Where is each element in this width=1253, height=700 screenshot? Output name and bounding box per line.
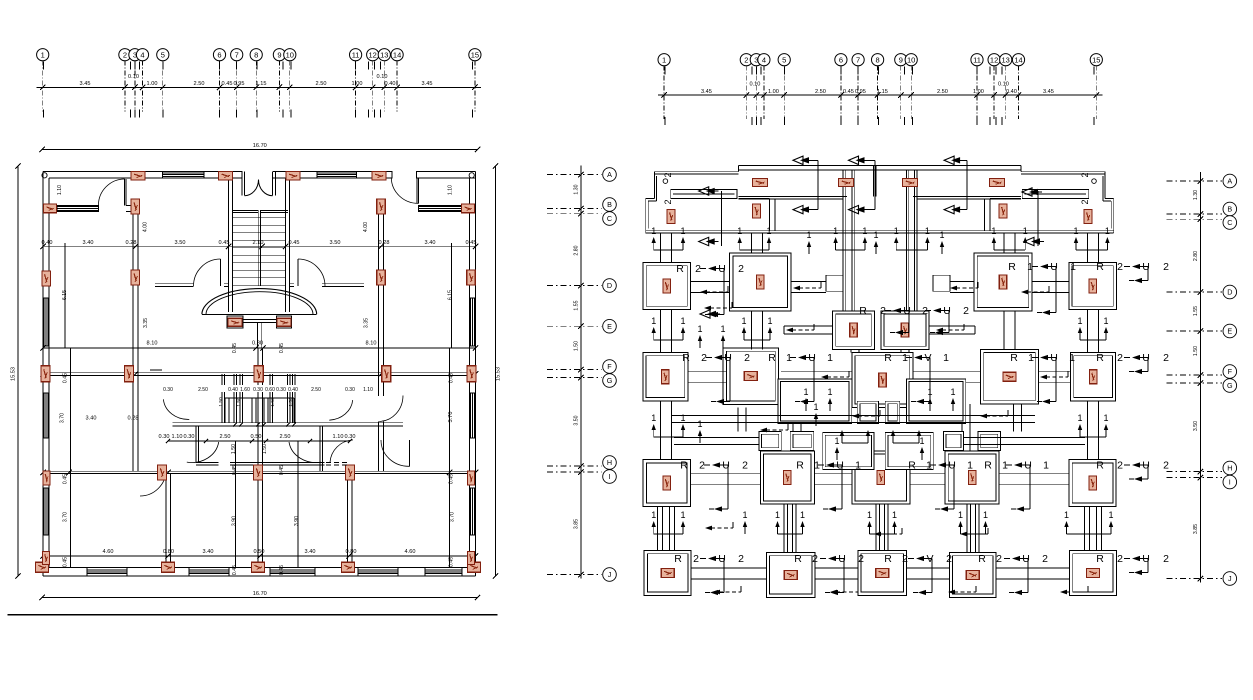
svg-text:1: 1 bbox=[680, 226, 685, 236]
hook arrow 17 bbox=[980, 410, 1008, 418]
svg-text:0.30: 0.30 bbox=[276, 387, 286, 393]
hall wall right bbox=[290, 284, 365, 287]
right-plan grid bubbles 1-15 bbox=[658, 54, 1102, 66]
band window left bbox=[671, 190, 737, 199]
column marker bottom wall x348 bbox=[342, 562, 355, 572]
svg-text:8: 8 bbox=[254, 50, 258, 59]
svg-text:0.60: 0.60 bbox=[265, 387, 275, 393]
dim labels y391 bbox=[161, 385, 373, 393]
rebar arrow pair 18 bbox=[891, 430, 921, 443]
svg-text:4.00: 4.00 bbox=[143, 222, 149, 232]
svg-text:6: 6 bbox=[217, 50, 221, 59]
band marker v3 bbox=[999, 204, 1007, 218]
svg-text:1.10: 1.10 bbox=[448, 185, 454, 195]
svg-text:7: 7 bbox=[235, 50, 239, 59]
svg-text:14: 14 bbox=[393, 50, 401, 59]
svg-text:F: F bbox=[1228, 367, 1233, 376]
svg-text:1.15: 1.15 bbox=[256, 81, 267, 87]
svg-text:0.40: 0.40 bbox=[385, 81, 396, 87]
left plan left wall window 3 bbox=[43, 488, 49, 535]
B-row wall right bbox=[419, 206, 467, 212]
svg-text:13: 13 bbox=[1002, 55, 1010, 64]
hook arrow 9 bbox=[713, 586, 741, 594]
footing pad P14 bbox=[852, 451, 910, 504]
band marker v2 bbox=[753, 204, 761, 218]
svg-text:12: 12 bbox=[369, 50, 377, 59]
foundation band bottom edge bbox=[646, 231, 1114, 233]
svg-text:10: 10 bbox=[286, 50, 294, 59]
svg-text:0.30: 0.30 bbox=[184, 434, 195, 440]
band stairwell wall right bbox=[906, 170, 916, 311]
column marker y372 x386 bbox=[382, 366, 391, 382]
svg-text:U: U bbox=[1050, 352, 1058, 364]
interior wall bottom-right vertical bbox=[348, 473, 353, 567]
rebar arrow single 11 bbox=[813, 402, 818, 426]
rotated dim text 6.15 at 66,295 bbox=[62, 290, 68, 300]
svg-text:4: 4 bbox=[140, 50, 144, 59]
svg-text:1.00: 1.00 bbox=[768, 89, 779, 95]
right overall vertical dim 15.53 bbox=[493, 163, 502, 578]
svg-text:A: A bbox=[607, 170, 612, 179]
footing pad P12 bbox=[643, 460, 690, 507]
svg-text:5: 5 bbox=[782, 55, 786, 64]
svg-text:0.10: 0.10 bbox=[998, 82, 1009, 88]
svg-text:1: 1 bbox=[806, 230, 811, 240]
svg-text:0.45: 0.45 bbox=[289, 240, 300, 246]
footing pad P19 bbox=[858, 551, 907, 596]
svg-text:1.30: 1.30 bbox=[1193, 190, 1199, 200]
label R-U group 16 bbox=[794, 553, 864, 595]
beam P10-P11 bbox=[1038, 371, 1070, 382]
svg-text:2: 2 bbox=[922, 305, 928, 317]
svg-text:6: 6 bbox=[839, 55, 843, 64]
svg-text:U: U bbox=[836, 460, 844, 472]
rebar arrow pair 17 bbox=[840, 430, 870, 443]
svg-text:U: U bbox=[903, 305, 911, 317]
svg-text:2: 2 bbox=[812, 553, 818, 565]
stub row D left bbox=[826, 275, 843, 291]
beam P12-P17 bbox=[658, 506, 675, 550]
svg-text:3.50: 3.50 bbox=[330, 240, 341, 246]
interior wall bottom-left vertical bbox=[166, 473, 171, 567]
band marker v4 bbox=[1084, 210, 1092, 224]
witness line mid-right lower bbox=[297, 441, 299, 567]
section line right bbox=[1037, 191, 1039, 246]
foundation strip band outline bbox=[646, 166, 1114, 233]
left plan corner circle top-right bbox=[469, 173, 474, 178]
label R-U group 12 bbox=[908, 460, 973, 512]
svg-text:1.50: 1.50 bbox=[1193, 346, 1199, 356]
svg-text:2: 2 bbox=[123, 50, 127, 59]
svg-text:1.10: 1.10 bbox=[333, 434, 344, 440]
svg-text:15: 15 bbox=[471, 50, 479, 59]
beam P7-P8 bbox=[688, 371, 727, 382]
svg-text:U: U bbox=[1142, 553, 1150, 565]
hall partition lower mid bbox=[230, 462, 324, 465]
column marker V2 mid bbox=[377, 270, 386, 285]
rebar arrow single 5 bbox=[720, 324, 725, 348]
foundation band inner right corner bbox=[1103, 176, 1111, 228]
svg-text:R: R bbox=[884, 553, 892, 565]
overall dim 16.70 bottom bbox=[39, 591, 480, 600]
svg-text:2: 2 bbox=[742, 460, 748, 472]
middle zone box 8 bbox=[885, 433, 933, 470]
svg-text:1: 1 bbox=[651, 316, 656, 326]
rebar arrow single 9 bbox=[950, 387, 955, 411]
dim line y441 bbox=[166, 439, 352, 443]
column marker y372 x258 bbox=[254, 366, 263, 382]
svg-text:J: J bbox=[608, 570, 612, 579]
door top-left arc bbox=[98, 179, 124, 205]
svg-text:1: 1 bbox=[680, 510, 685, 520]
column marker bottom wall x258 bbox=[252, 562, 265, 572]
band stairwell wall left bbox=[843, 170, 854, 311]
svg-text:R: R bbox=[674, 553, 682, 565]
left plan right wall window 2 bbox=[470, 393, 476, 438]
left plan bottom exterior wall bbox=[43, 568, 476, 577]
footing pad P20 bbox=[949, 553, 996, 598]
beam P5-P9 bbox=[851, 349, 859, 352]
svg-text:14: 14 bbox=[1014, 55, 1022, 64]
svg-text:1: 1 bbox=[1043, 460, 1049, 472]
beam midzone left bbox=[738, 407, 746, 431]
column marker left wall low bbox=[43, 552, 50, 565]
svg-text:7: 7 bbox=[856, 55, 860, 64]
svg-text:3.35: 3.35 bbox=[143, 318, 149, 328]
svg-text:0.28: 0.28 bbox=[126, 240, 137, 246]
middle zone box 1 bbox=[778, 379, 852, 424]
svg-text:1.00: 1.00 bbox=[973, 89, 984, 95]
hook arrow 2 bbox=[704, 302, 732, 310]
svg-text:15.53: 15.53 bbox=[496, 367, 502, 381]
hook arrow 7 bbox=[821, 371, 849, 379]
svg-text:2: 2 bbox=[1117, 553, 1123, 565]
svg-text:1: 1 bbox=[873, 230, 878, 240]
svg-text:4.60: 4.60 bbox=[405, 549, 416, 555]
svg-text:2: 2 bbox=[695, 263, 701, 275]
svg-text:U: U bbox=[808, 352, 816, 364]
rebar arrow single 2 bbox=[873, 230, 878, 254]
svg-text:2.80: 2.80 bbox=[1193, 251, 1199, 261]
svg-text:U: U bbox=[724, 352, 732, 364]
rebar arrow single 7 bbox=[827, 387, 832, 411]
hook arrow 14 bbox=[948, 586, 976, 594]
rotated dim text 0.45 at 452,562 bbox=[449, 557, 455, 567]
column marker stair-left bbox=[228, 318, 242, 326]
svg-text:0.45: 0.45 bbox=[232, 465, 238, 475]
rebar arrow single 13 bbox=[919, 436, 924, 460]
svg-text:1: 1 bbox=[939, 230, 944, 240]
hall wall left bbox=[155, 284, 229, 287]
door arc hall upper-left bbox=[163, 399, 189, 419]
svg-text:2: 2 bbox=[1080, 199, 1090, 204]
footing pad P4 bbox=[1069, 263, 1117, 310]
svg-text:2: 2 bbox=[996, 553, 1002, 565]
svg-text:R: R bbox=[908, 460, 916, 472]
section arrow A extra 5 bbox=[1022, 188, 1042, 196]
left-plan grid under-tick marks bbox=[44, 62, 473, 118]
hook arrow 15 bbox=[1060, 586, 1088, 594]
column marker y472 right wall bbox=[468, 471, 475, 485]
hall door right arc bbox=[298, 259, 325, 286]
label R-U group 1 bbox=[676, 263, 744, 317]
rebar arrow single 10 bbox=[697, 419, 702, 443]
hook arrow 1 bbox=[700, 286, 728, 294]
footing pad P8 bbox=[723, 348, 778, 404]
right-plan grid axis dash-dot lines bbox=[664, 66, 1096, 119]
svg-text:6.15: 6.15 bbox=[448, 290, 454, 300]
svg-text:4: 4 bbox=[762, 55, 766, 64]
column marker y372 x128 bbox=[124, 366, 133, 382]
footing pad P21 bbox=[1070, 551, 1117, 596]
door arc V2 wall bbox=[379, 396, 403, 422]
beam P10-P15 bbox=[962, 404, 970, 451]
door top-right leaf bbox=[417, 178, 419, 204]
svg-text:1: 1 bbox=[1027, 261, 1033, 273]
svg-text:1: 1 bbox=[680, 316, 685, 326]
svg-text:0.45: 0.45 bbox=[232, 565, 238, 575]
beam stub-P3 bbox=[950, 282, 974, 293]
svg-text:3.45: 3.45 bbox=[422, 81, 433, 87]
entrance porch recess bbox=[242, 171, 275, 195]
left plan top wall window 1 bbox=[163, 171, 204, 178]
svg-text:1: 1 bbox=[926, 460, 932, 472]
beam P15-P16 bbox=[999, 473, 1069, 484]
svg-text:1: 1 bbox=[1105, 226, 1110, 236]
closet partition verticals bbox=[222, 374, 295, 423]
svg-text:C: C bbox=[1227, 218, 1232, 227]
middle zone box 3 bbox=[857, 401, 878, 423]
landing chord line bbox=[202, 313, 317, 315]
hook arrow 18 bbox=[874, 528, 902, 536]
witness line right lower bbox=[449, 348, 451, 567]
column marker top wall 2 bbox=[219, 171, 233, 180]
svg-text:8: 8 bbox=[876, 55, 880, 64]
svg-text:3.45: 3.45 bbox=[80, 81, 91, 87]
svg-text:1: 1 bbox=[720, 324, 725, 334]
label R-U group 14 bbox=[1096, 460, 1169, 482]
left-plan grid dimension labels bbox=[80, 74, 433, 87]
band corridor wall left bbox=[739, 196, 847, 199]
footing pad P16 bbox=[1069, 460, 1116, 507]
middle letter axis dim labels bbox=[574, 184, 580, 529]
rebar arrow pair 12 bbox=[651, 510, 685, 534]
label R-U group 13 bbox=[984, 460, 1049, 512]
svg-text:B: B bbox=[607, 200, 612, 209]
svg-text:3.70: 3.70 bbox=[448, 412, 454, 423]
svg-text:16.70: 16.70 bbox=[253, 143, 267, 149]
beam P17-P18 bbox=[691, 568, 766, 579]
rotated 2 mid-right bbox=[1080, 199, 1090, 204]
svg-text:2.50: 2.50 bbox=[198, 387, 208, 393]
title separator line bbox=[7, 614, 497, 616]
B-row wall left bbox=[49, 206, 98, 212]
left plan bottom wall window 2 bbox=[189, 568, 229, 577]
left-plan grid dimension line bbox=[37, 85, 481, 90]
section arrow A extra 2 bbox=[699, 237, 719, 245]
footing pad P1 bbox=[643, 263, 691, 310]
left plan right wall window 1 bbox=[470, 298, 476, 346]
column marker y372 x45 bbox=[41, 366, 50, 382]
svg-text:1: 1 bbox=[894, 226, 899, 236]
hook arrow 12 bbox=[1040, 371, 1068, 379]
svg-text:1: 1 bbox=[766, 226, 771, 236]
door arc right of wall bbox=[330, 440, 353, 462]
left plan bottom wall window 1 bbox=[87, 568, 127, 577]
footing pad P9 bbox=[852, 353, 913, 408]
column marker bottom wall x42 bbox=[36, 562, 49, 572]
hook arrow 5 bbox=[793, 282, 821, 290]
lower mid-room wall right bbox=[320, 426, 323, 471]
grid row y472 wall line bbox=[40, 470, 478, 475]
svg-text:1.10: 1.10 bbox=[57, 185, 63, 195]
hook arrow 13 bbox=[830, 586, 858, 594]
column marker B-left bbox=[44, 204, 57, 213]
footing pad P2 bbox=[730, 253, 791, 311]
beam band-P1 bbox=[661, 233, 672, 263]
label R-U group 2 bbox=[1008, 261, 1076, 315]
svg-text:1: 1 bbox=[814, 460, 820, 472]
svg-text:H: H bbox=[1227, 464, 1232, 473]
svg-text:2.50: 2.50 bbox=[815, 89, 826, 95]
beam P5-left bbox=[784, 326, 833, 334]
beam P3-P4 bbox=[1032, 282, 1069, 293]
svg-text:0.10: 0.10 bbox=[128, 74, 139, 80]
svg-text:F: F bbox=[607, 362, 612, 371]
hook arrow 16 bbox=[760, 424, 788, 432]
stair center divider bbox=[258, 210, 260, 286]
svg-text:3.90: 3.90 bbox=[294, 516, 300, 526]
svg-text:2.10: 2.10 bbox=[253, 240, 264, 246]
interior wall V1 bbox=[133, 199, 138, 471]
rebar arrow pair 11 bbox=[1077, 413, 1108, 437]
svg-text:3.40: 3.40 bbox=[203, 549, 214, 555]
rebar arrow single 12 bbox=[742, 510, 747, 534]
svg-text:0.45: 0.45 bbox=[843, 89, 854, 95]
rebar arrow pair 5 bbox=[991, 226, 1027, 250]
label R-U group 7 bbox=[884, 352, 949, 404]
hook arrow 10 bbox=[852, 410, 880, 418]
svg-text:E: E bbox=[607, 322, 612, 331]
svg-text:16.70: 16.70 bbox=[253, 591, 267, 597]
svg-text:1: 1 bbox=[958, 510, 963, 520]
svg-text:2: 2 bbox=[701, 352, 707, 364]
svg-text:D: D bbox=[1227, 288, 1232, 297]
landing step box left bbox=[227, 316, 243, 328]
hall partition upper bbox=[173, 422, 403, 426]
svg-text:1: 1 bbox=[1073, 226, 1078, 236]
beam P1-P7 bbox=[661, 310, 672, 353]
rotated dim text 3.90 at 298,521 bbox=[294, 516, 300, 526]
section line left bbox=[720, 191, 722, 246]
svg-text:0.30: 0.30 bbox=[253, 387, 263, 393]
svg-text:I: I bbox=[609, 472, 611, 481]
svg-text:12: 12 bbox=[990, 55, 998, 64]
svg-text:1: 1 bbox=[892, 510, 897, 520]
interior wall V2 bbox=[379, 199, 384, 471]
svg-text:1.55: 1.55 bbox=[1193, 306, 1199, 316]
label R-U group 17 bbox=[884, 553, 952, 595]
svg-text:1.50: 1.50 bbox=[218, 397, 224, 407]
rotated dim text 1.10 at 61,190 bbox=[57, 185, 63, 195]
stub row D right bbox=[933, 275, 950, 291]
hook arrow 8 bbox=[705, 522, 733, 530]
right letter axis dim line bbox=[1198, 172, 1203, 583]
left plan right wall window 3 bbox=[470, 488, 476, 535]
svg-text:U: U bbox=[1142, 352, 1150, 364]
svg-text:1.50: 1.50 bbox=[270, 397, 276, 407]
svg-text:1.30: 1.30 bbox=[574, 184, 580, 194]
svg-text:0.40: 0.40 bbox=[288, 387, 298, 393]
svg-text:15: 15 bbox=[1092, 55, 1100, 64]
rebar arrow single 6 bbox=[803, 387, 808, 411]
band circle left bbox=[663, 179, 668, 184]
beam P16-P21 bbox=[1085, 506, 1102, 550]
svg-text:0.28: 0.28 bbox=[379, 240, 390, 246]
footing pad P17 bbox=[644, 551, 691, 596]
svg-text:2: 2 bbox=[1080, 172, 1090, 177]
svg-text:1.60: 1.60 bbox=[240, 387, 250, 393]
svg-text:U: U bbox=[722, 460, 730, 472]
left plan left exterior wall bbox=[43, 171, 49, 576]
rebar arrow pair 4 bbox=[894, 226, 930, 250]
band interior wall right bbox=[984, 199, 1020, 231]
svg-text:2: 2 bbox=[1117, 352, 1123, 364]
rotated dim text 0.45 at 236,348 bbox=[232, 343, 238, 353]
rebar arrow pair 1 bbox=[651, 226, 685, 250]
svg-text:1.50: 1.50 bbox=[236, 397, 242, 407]
svg-text:R: R bbox=[768, 352, 776, 364]
svg-text:5: 5 bbox=[161, 50, 165, 59]
door arc hall upper-right bbox=[329, 400, 352, 420]
svg-text:1: 1 bbox=[855, 460, 861, 472]
hook arrow 11 bbox=[1021, 286, 1049, 294]
column marker top wall 3 bbox=[286, 171, 300, 180]
beam band-P2 bbox=[752, 233, 763, 253]
svg-text:R: R bbox=[978, 553, 986, 565]
svg-text:1: 1 bbox=[680, 413, 685, 423]
svg-text:1: 1 bbox=[919, 436, 924, 446]
beam P14-P15 bbox=[910, 473, 945, 484]
svg-text:2: 2 bbox=[858, 553, 864, 565]
interior wall bottom-center vertical bbox=[258, 348, 263, 568]
column marker y472 x350 bbox=[346, 465, 355, 480]
column marker V1 top bbox=[131, 199, 140, 214]
beam P9-P10 bbox=[913, 371, 981, 382]
rebar arrow pair 10 bbox=[651, 413, 685, 437]
section assembly 3 bbox=[944, 156, 967, 214]
svg-text:0.45: 0.45 bbox=[232, 343, 238, 353]
svg-text:3.40: 3.40 bbox=[83, 240, 94, 246]
svg-text:1: 1 bbox=[867, 510, 872, 520]
hall partition lower left bbox=[196, 462, 219, 465]
footing pad P3 bbox=[974, 253, 1032, 311]
svg-text:8.10: 8.10 bbox=[366, 341, 377, 347]
hook arrow 3 bbox=[786, 324, 814, 332]
svg-text:3.90: 3.90 bbox=[232, 516, 238, 526]
svg-text:0.45: 0.45 bbox=[279, 565, 285, 575]
beam P15-P20 bbox=[967, 504, 979, 552]
svg-text:2: 2 bbox=[1117, 261, 1123, 273]
svg-text:3.40: 3.40 bbox=[86, 416, 97, 422]
svg-text:9: 9 bbox=[277, 50, 281, 59]
door arc hall lower-left bbox=[187, 442, 219, 463]
rebar arrow pair 16 bbox=[1064, 510, 1114, 534]
svg-text:U: U bbox=[1050, 261, 1058, 273]
svg-text:1: 1 bbox=[1002, 460, 1008, 472]
svg-text:R: R bbox=[884, 352, 892, 364]
svg-text:3.40: 3.40 bbox=[425, 240, 436, 246]
